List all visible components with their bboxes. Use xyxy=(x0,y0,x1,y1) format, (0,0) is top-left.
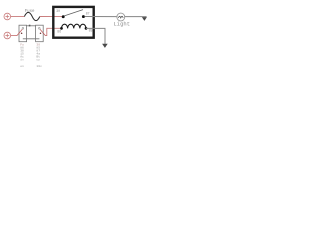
svg-text:86: 86 xyxy=(57,29,61,33)
wire contact to lamp xyxy=(85,16,117,18)
svg-text:85: 85 xyxy=(89,29,93,33)
relay contact blade xyxy=(64,10,83,16)
switch knob xyxy=(29,25,31,27)
switch S1 body xyxy=(19,25,43,42)
fuse F1 xyxy=(24,12,39,20)
svg-text:Light: Light xyxy=(114,21,131,28)
contact pin 87 xyxy=(82,15,85,18)
terminal V+ bottom xyxy=(4,32,11,39)
svg-text:up: up xyxy=(36,58,40,61)
wire coil to ground xyxy=(86,28,105,44)
svg-text:dn: dn xyxy=(20,57,24,61)
wire xyxy=(11,35,18,37)
lamp L1 xyxy=(117,13,125,21)
relay coil xyxy=(62,24,86,28)
terminal V+ top xyxy=(4,13,11,20)
ground arrow 2 xyxy=(142,17,147,21)
switch blade left xyxy=(17,29,22,35)
contact pin 30 xyxy=(62,15,65,18)
switch pin text columns xyxy=(20,43,42,68)
svg-text:87: 87 xyxy=(86,11,90,15)
relay K1 box xyxy=(53,7,93,38)
svg-text:10x: 10x xyxy=(36,65,42,68)
ground arrow 1 xyxy=(102,44,108,48)
wire xyxy=(11,16,25,18)
svg-text:on: on xyxy=(20,65,24,68)
wire to relay coil xyxy=(45,28,61,35)
wire lamp to ground xyxy=(125,16,147,18)
svg-text:30: 30 xyxy=(56,9,60,13)
switch blade right xyxy=(40,29,45,35)
wire into relay xyxy=(40,16,63,18)
